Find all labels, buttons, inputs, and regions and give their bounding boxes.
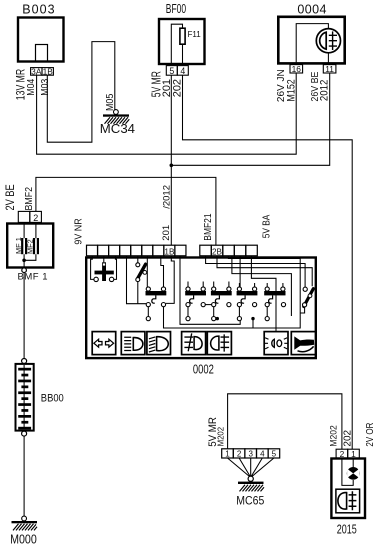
- bulb symbol of 2015: [347, 467, 360, 480]
- ground MC34 terminal circle: [114, 110, 119, 115]
- svg-text:BMF21: BMF21: [202, 213, 213, 240]
- contact bar C: [211, 291, 232, 295]
- comodo 0002 body: [86, 258, 316, 359]
- connector pins 1-5 of MC65: [222, 449, 280, 458]
- link between row2 circles: [205, 304, 211, 306]
- svg-text:BB00: BB00: [41, 392, 64, 404]
- svg-text:2: 2: [33, 213, 38, 223]
- wire M202 : MC65 pin1 to 2015 pin2: [228, 394, 342, 449]
- wire strip2 cell1 to horn contact: [206, 256, 306, 288]
- ground M000 hatching: [13, 524, 37, 531]
- turn signal contact circle left: [94, 277, 98, 281]
- wire inside BF00 pin5 to fuse: [171, 24, 182, 64]
- icon box high beam: [147, 332, 171, 355]
- ground MC65 terminal circle: [248, 476, 253, 481]
- wire dot to bus: [252, 319, 254, 328]
- wire strip1 cell9 down: [180, 256, 240, 324]
- ground MC65 bar: [238, 482, 264, 484]
- svg-text:M202: M202: [328, 425, 338, 446]
- battery center conductor: [23, 365, 25, 430]
- contact bar A: [146, 291, 167, 295]
- junction dot inside BMF1: [22, 259, 26, 263]
- contact bar E: [264, 291, 285, 295]
- wire inside 2015 pin1 to bulb: [352, 458, 354, 468]
- svg-text:201: 201: [161, 225, 172, 241]
- icon box turn signals: [92, 332, 116, 355]
- svg-text:4: 4: [260, 449, 265, 458]
- pin 5 of BF00: [166, 66, 177, 76]
- horn switch contact top: [303, 287, 307, 291]
- svg-text:F11: F11: [188, 30, 202, 39]
- svg-text:5: 5: [169, 66, 174, 76]
- pin 3A of B003: [31, 68, 42, 76]
- svg-text:2015: 2015: [337, 522, 357, 536]
- svg-text:0002: 0002: [193, 363, 214, 377]
- svg-text:/2012: /2012: [161, 185, 172, 209]
- svg-text:M03: M03: [39, 79, 51, 96]
- contact circles above bars: [146, 287, 285, 291]
- battery cell plates: [18, 368, 31, 430]
- svg-text:MF2: MF2: [26, 239, 35, 254]
- svg-text:11: 11: [325, 64, 334, 74]
- svg-text:5: 5: [272, 449, 277, 458]
- wire inside BMF1 from blank pin: [23, 223, 25, 269]
- junction dot wire201/2012: [170, 164, 174, 168]
- wire strip1 cell7 down: [161, 256, 164, 287]
- wire inside 2015 pin2 loop: [342, 458, 353, 485]
- svg-text:202: 202: [171, 79, 183, 97]
- svg-text:0004: 0004: [297, 3, 326, 17]
- svg-text:B003: B003: [22, 2, 55, 16]
- wire strip2 cell5 to flasher box: [251, 256, 276, 332]
- contact circles row 2: [146, 303, 285, 307]
- wire fuse to pin 4: [182, 44, 184, 65]
- contact circles row 3: [146, 317, 269, 321]
- turn signal switch frame left: [91, 256, 94, 280]
- turn signal cross bar: [95, 271, 114, 275]
- connector plates MF2: [33, 238, 35, 254]
- pin 2 of BMF1: [30, 211, 42, 222]
- wire strip2 cell4 down: [239, 256, 241, 287]
- wire strip2 2B to horn lever: [217, 256, 312, 286]
- connector strip 1 of comodo: [87, 245, 186, 256]
- wire 1B long down: [166, 256, 174, 304]
- wire 201 : BF00 pin5 down to comodo connector 1B: [170, 75, 172, 245]
- contact bar D: [237, 291, 258, 295]
- svg-text:MC34: MC34: [100, 122, 135, 136]
- svg-text:1B: 1B: [164, 247, 175, 256]
- svg-text:3: 3: [248, 449, 253, 458]
- connector plates MF1: [21, 238, 23, 254]
- svg-text:3A: 3A: [31, 66, 42, 76]
- svg-text:202: 202: [342, 429, 353, 446]
- pin 2 of 2015: [336, 449, 348, 458]
- icon box front fog: [182, 332, 206, 355]
- wire inside BMF1 from pin 2: [24, 223, 36, 261]
- wire light switch down: [137, 282, 139, 304]
- lamp unit 2015 body: [331, 459, 365, 519]
- turn signal contact circle right: [109, 277, 113, 281]
- wire strip1 cell4 down to bar A: [127, 256, 147, 304]
- wire BMF2 : BMF1 pin2 to comodo connector 2B: [36, 177, 216, 245]
- battery BB00 body: [16, 364, 34, 431]
- svg-text:16: 16: [292, 64, 302, 74]
- svg-text:9V NR: 9V NR: [73, 218, 85, 244]
- wire strip1 cell6 down: [146, 256, 148, 287]
- unit B003 body: [18, 18, 64, 62]
- ground MC34 hatching: [105, 117, 130, 124]
- wire link to 2012: [171, 73, 329, 165]
- icon box low beam: [121, 332, 145, 355]
- light switch stub: [137, 256, 139, 263]
- pin blank of BMF1: [18, 211, 30, 222]
- ground M000 terminal circle: [22, 516, 27, 521]
- svg-text:1: 1: [225, 449, 230, 458]
- fog lamp symbol box of 2015: [336, 489, 360, 513]
- wire horn contact to bus: [300, 307, 304, 313]
- connector strip 2 of comodo: [200, 245, 257, 256]
- wire M04 / M152 : B003 pin3A to lamp 0004 pin16: [37, 73, 297, 154]
- ground MC34 bar: [103, 114, 129, 116]
- pin 1B of B003: [42, 68, 53, 76]
- light switch lever: [138, 264, 146, 278]
- svg-text:MC65: MC65: [236, 494, 264, 508]
- horn switch contact bottom: [303, 303, 307, 307]
- svg-text:BMF 1: BMF 1: [18, 271, 48, 282]
- icon box rear fog: [207, 332, 231, 355]
- svg-text:1B: 1B: [43, 66, 54, 76]
- wire inside 0004 pin16 to bulb: [296, 24, 328, 63]
- icon box horn: [291, 332, 316, 355]
- fuse F11: [180, 28, 185, 44]
- wire inside 0004 bulb to pin11: [327, 53, 329, 64]
- junction dots in comodo: [216, 317, 219, 320]
- battery top terminal circle: [22, 359, 27, 364]
- horn switch lever notch: [308, 294, 312, 298]
- wire battery to ground M000: [23, 436, 25, 516]
- ground MC65 hatching: [240, 485, 265, 492]
- fog lamp bulb symbol of 0004: [316, 29, 340, 53]
- pin 16 of 0004: [290, 65, 303, 73]
- converging wires to ground MC65: [228, 458, 274, 477]
- ground M000 bar: [12, 521, 38, 523]
- svg-text:2B: 2B: [212, 247, 223, 256]
- svg-text:2: 2: [340, 449, 345, 459]
- icon box flasher: [264, 332, 288, 355]
- unit B003 connector notch: [36, 45, 48, 62]
- contact hooks below bars: [152, 295, 273, 303]
- pin 1 of 2015: [348, 449, 360, 458]
- contact stubs above circles: [188, 282, 283, 288]
- contact bar B: [185, 291, 206, 295]
- svg-text:4: 4: [180, 66, 185, 76]
- svg-text:M04: M04: [25, 79, 37, 96]
- light switch contact bottom circle: [136, 278, 140, 282]
- svg-text:BF00: BF00: [166, 1, 186, 16]
- light switch lever notch: [143, 271, 147, 275]
- turn signal lever bar vertical: [102, 262, 106, 281]
- svg-text:M000: M000: [10, 532, 37, 546]
- fuse unit BF00 body: [159, 19, 205, 64]
- svg-text:2V OR: 2V OR: [364, 422, 375, 446]
- svg-text:MF 1: MF 1: [14, 237, 23, 254]
- turn signal switch stub middle: [103, 256, 105, 262]
- svg-text:M202: M202: [216, 426, 225, 446]
- wire BMF1 to battery: [23, 273, 25, 359]
- battery bottom terminal circle: [22, 431, 27, 436]
- unit BMF1 body: [7, 224, 53, 268]
- vertical links row2 to row3: [148, 307, 267, 317]
- wire nested to contact row: [232, 256, 292, 316]
- wire strip2 cell3 down right to bottom bus: [164, 256, 301, 328]
- svg-text:BMF2: BMF2: [23, 187, 35, 211]
- wire 202 : BF00 pin4 to rear lamp 2015 pin1: [183, 75, 353, 449]
- svg-text:1: 1: [351, 449, 356, 459]
- turn signal switch frame right: [114, 256, 117, 280]
- light switch contact top circle: [136, 263, 140, 267]
- BMF1 bottom terminal circle: [22, 268, 27, 273]
- pin 4 of BF00: [177, 66, 188, 76]
- wire M03 / M05 : B003 pin1B to ground MC34: [47, 42, 115, 143]
- svg-text:2012: 2012: [319, 79, 331, 101]
- svg-text:2: 2: [237, 449, 242, 458]
- svg-text:2V BE: 2V BE: [4, 184, 17, 210]
- horn switch lever: [304, 289, 314, 307]
- svg-text:5V BA: 5V BA: [261, 214, 272, 238]
- pin 11 of 0004: [323, 65, 336, 73]
- lamp unit 0004 body: [278, 17, 344, 64]
